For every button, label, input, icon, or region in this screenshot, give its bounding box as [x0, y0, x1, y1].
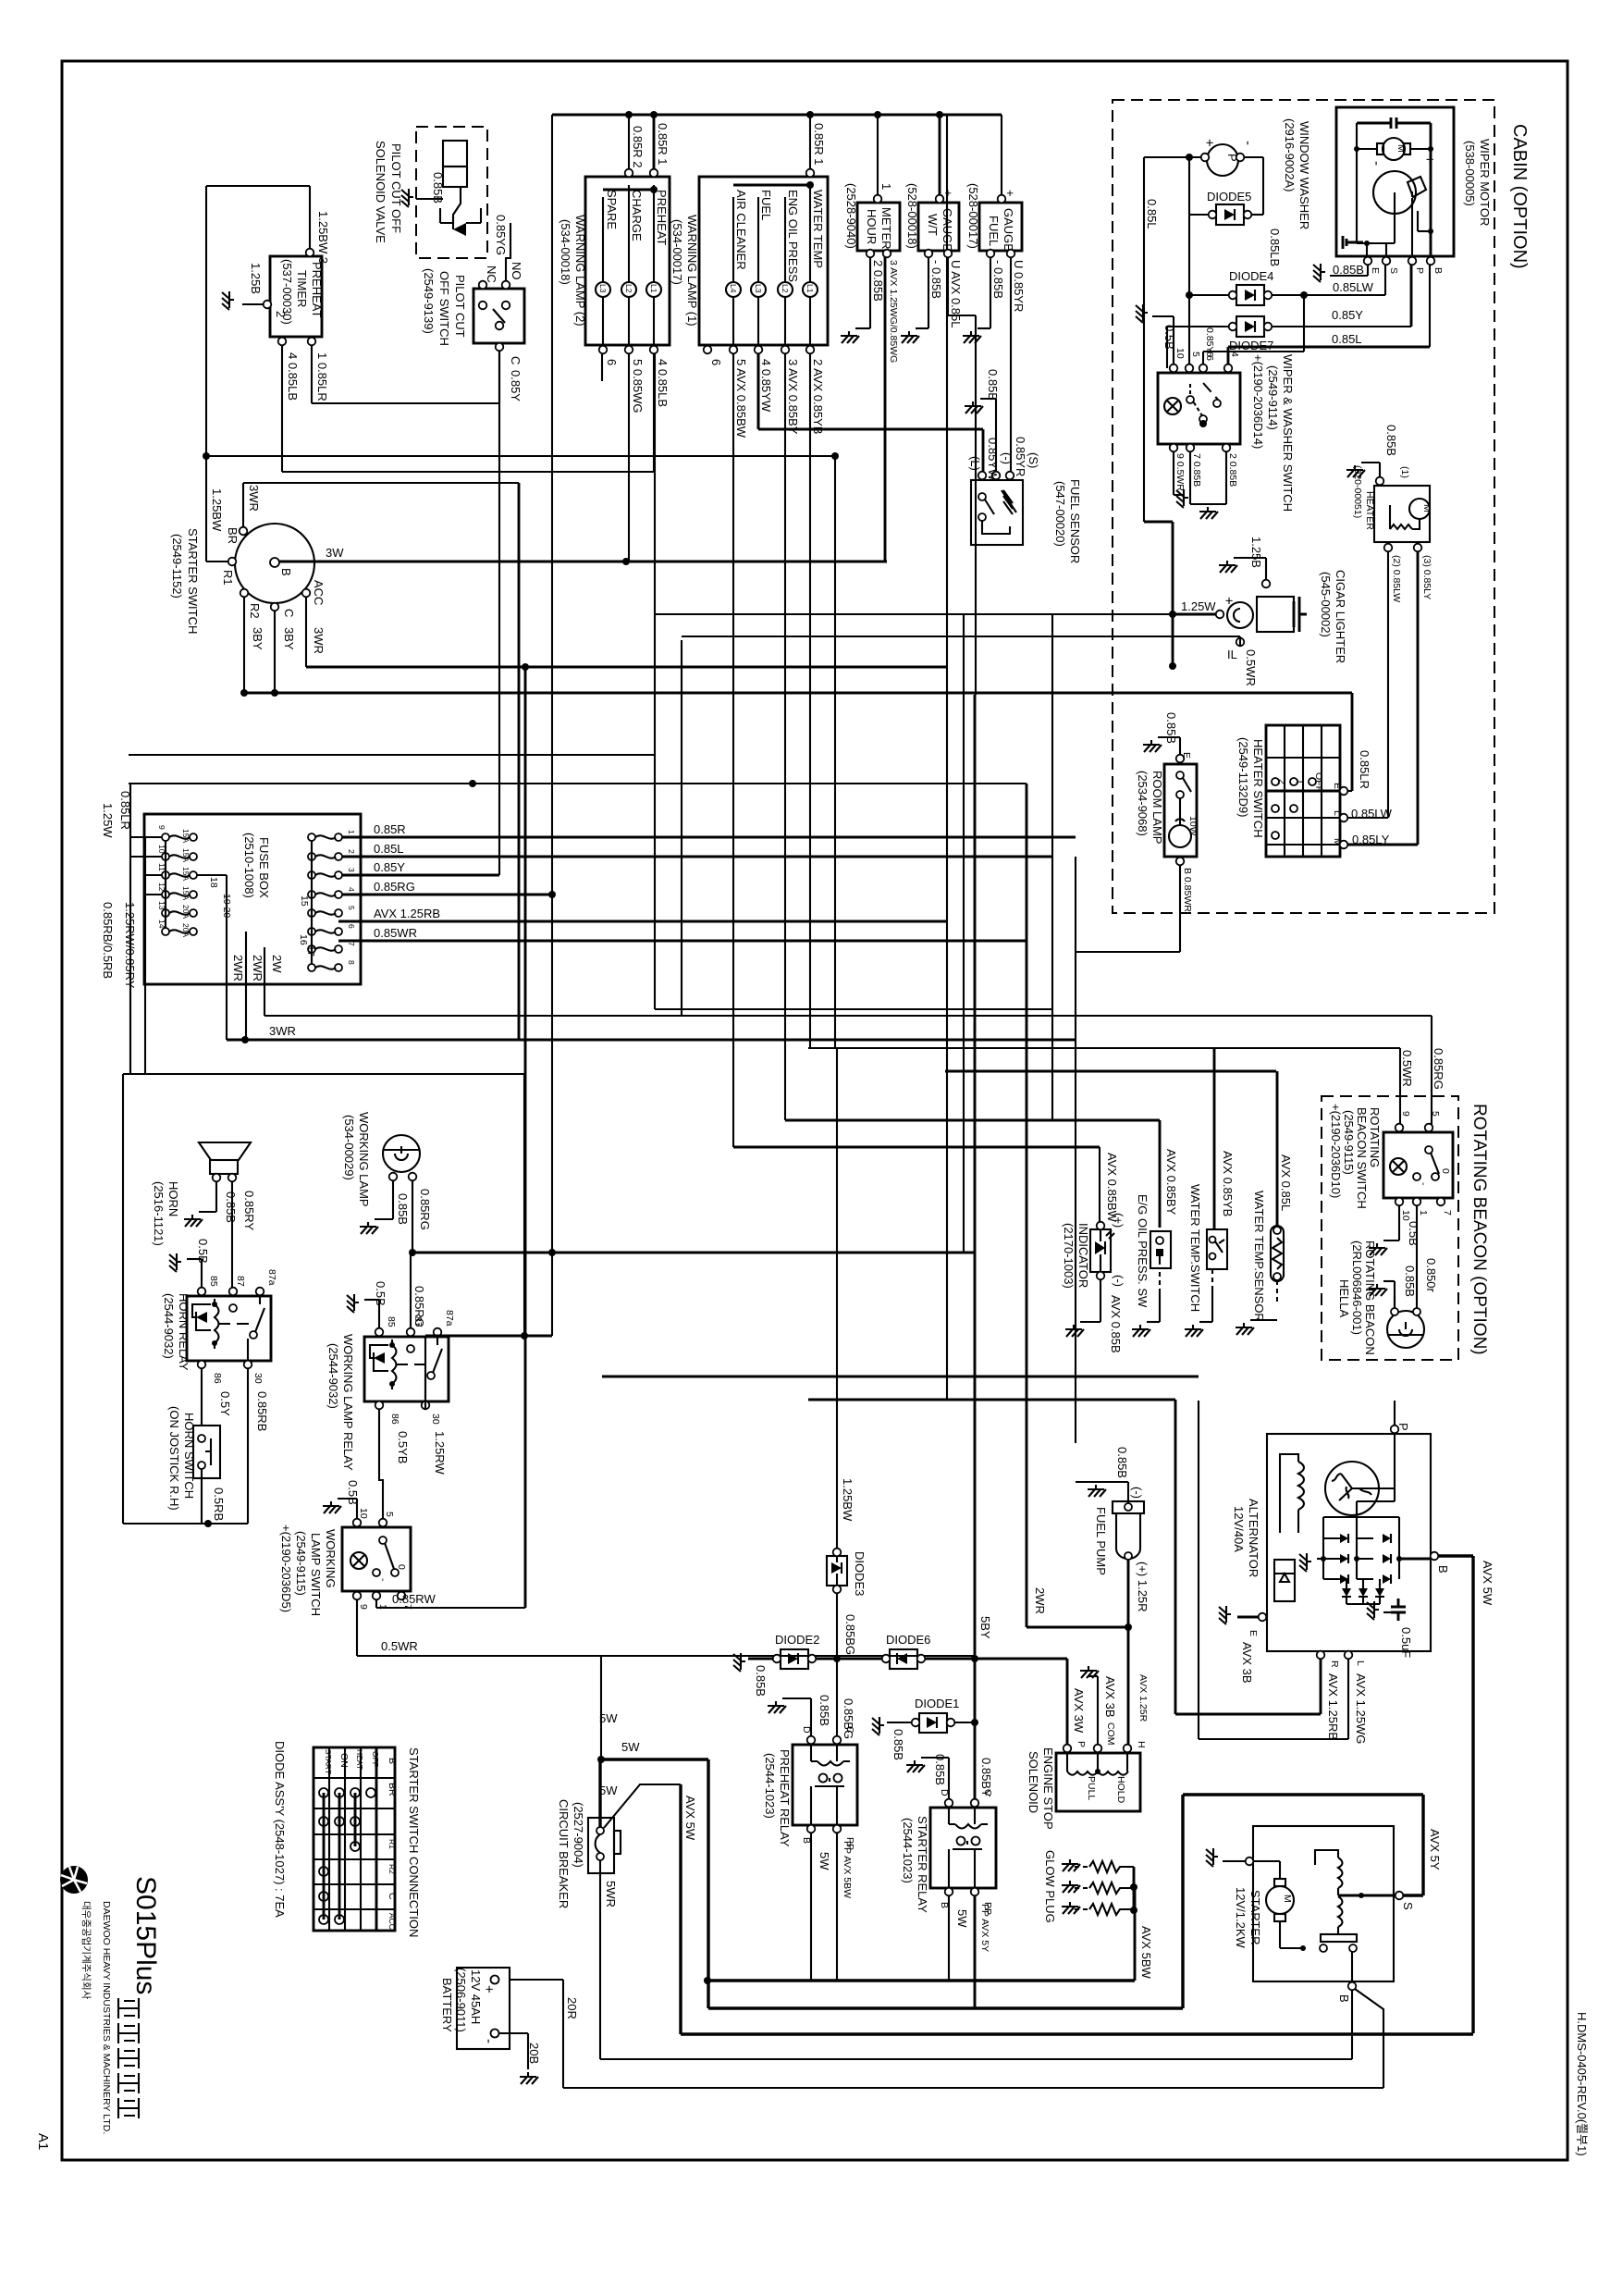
- diode6: [882, 1616, 992, 1669]
- svg-text:DIODE ASS'Y (2548-1027) : 7E: DIODE ASS'Y (2548-1027) : 7EA: [273, 1741, 287, 1918]
- wire: [129, 754, 655, 756]
- wire: [425, 1335, 552, 1338]
- svg-text:10: 10: [1400, 1210, 1411, 1221]
- svg-text:3WR: 3WR: [312, 627, 326, 654]
- wire: [282, 471, 655, 473]
- svg-text:ENG OIL PRESS: ENG OIL PRESS: [786, 190, 800, 282]
- svg-text:DIODE2: DIODE2: [775, 1633, 819, 1647]
- svg-text:(-): (-): [1130, 1487, 1144, 1499]
- horn (2516-1121): [152, 1142, 256, 1291]
- svg-text:R2: R2: [248, 603, 262, 619]
- wire: [1051, 614, 1053, 1120]
- svg-text:(2534-9068): (2534-9068): [1136, 771, 1150, 836]
- svg-text:HEAT: HEAT: [355, 1749, 364, 1770]
- svg-text:(528-00017): (528-00017): [966, 183, 980, 249]
- wire: [784, 353, 786, 1120]
- wire: [654, 353, 656, 1009]
- svg-text:0.85Y: 0.85Y: [1332, 308, 1363, 322]
- svg-text:CIGAR LIGHTER: CIGAR LIGHTER: [1334, 570, 1347, 663]
- wire: [1076, 951, 1180, 953]
- svg-text:HORN RELAY: HORN RELAY: [177, 1293, 191, 1371]
- svg-text:B: B: [939, 1902, 950, 1908]
- svg-text:(538-00005): (538-00005): [1463, 141, 1477, 206]
- svg-text:ALTERNATOR: ALTERNATOR: [1247, 1499, 1260, 1577]
- svg-text:2 AVX 0.85YB: 2 AVX 0.85YB: [811, 359, 825, 434]
- wire: [708, 2006, 1183, 2009]
- glow plug: [1043, 1850, 1153, 1980]
- diode5: [1189, 157, 1251, 368]
- svg-text:P: P: [1414, 267, 1425, 274]
- svg-text:WINDOW WASHER: WINDOW WASHER: [1297, 121, 1311, 229]
- wire: [552, 114, 1002, 117]
- svg-text:0.85B: 0.85B: [224, 1191, 238, 1223]
- wire: [1183, 1793, 1423, 1796]
- wire: [376, 1607, 525, 1609]
- svg-text:+(2190-2036D5): +(2190-2036D5): [279, 1524, 293, 1612]
- wire: [653, 353, 655, 472]
- wire: [1429, 265, 1431, 347]
- wire: [836, 1048, 838, 1552]
- svg-text:-: -: [377, 1578, 388, 1582]
- svg-text:P: P: [1396, 1423, 1410, 1431]
- wire 0.85RG from lamp bus: [410, 1253, 412, 1328]
- svg-text:AVX 0.85B: AVX 0.85B: [1109, 1295, 1123, 1353]
- svg-text:5W: 5W: [599, 1784, 618, 1797]
- wire: [1416, 1205, 1418, 1309]
- svg-text:NC: NC: [485, 265, 498, 283]
- svg-text:B: B: [1436, 1565, 1450, 1574]
- wire: [1174, 1400, 1177, 1714]
- heater (920-00051): [1346, 425, 1432, 845]
- svg-text:9: 9: [1400, 1111, 1411, 1117]
- wire: [1026, 784, 1028, 1627]
- wire: [206, 561, 227, 562]
- window washer (2916-9002A): [1144, 118, 1311, 522]
- svg-text:AVX 3B: AVX 3B: [1103, 1676, 1117, 1718]
- svg-text:2 0.85B: 2 0.85B: [1227, 453, 1238, 487]
- wire: [498, 2032, 528, 2034]
- starter switch connection table: [314, 1747, 421, 1937]
- wire: [412, 1180, 413, 1253]
- wire: [1303, 295, 1305, 352]
- svg-text:NO: NO: [510, 262, 523, 280]
- svg-text:AVX 0.85BY: AVX 0.85BY: [1164, 1149, 1178, 1216]
- svg-text:SOLENOID: SOLENOID: [1027, 1751, 1040, 1813]
- working lamp relay (2544-9032): [326, 1253, 524, 1519]
- svg-text:WATER TEMP.SWITCH: WATER TEMP.SWITCH: [1188, 1184, 1202, 1312]
- svg-text:L: L: [1355, 1660, 1366, 1666]
- svg-text:WIPER MOTOR: WIPER MOTOR: [1478, 139, 1492, 226]
- svg-text:LAMP SWITCH: LAMP SWITCH: [309, 1533, 323, 1616]
- wire: [600, 1656, 602, 1759]
- svg-text:HOUR: HOUR: [865, 209, 879, 244]
- wire: [732, 353, 734, 1147]
- svg-text:DAEWOO HEAVY INDUSTRIES & MACH: DAEWOO HEAVY INDUSTRIES & MACHINERY LTD.: [101, 1901, 112, 2134]
- svg-text:FUEL: FUEL: [987, 216, 1001, 246]
- svg-text:14: 14: [157, 920, 166, 929]
- svg-text:GAUGE: GAUGE: [941, 208, 954, 252]
- svg-text:2WR: 2WR: [231, 955, 245, 981]
- svg-text:0.85B: 0.85B: [1333, 263, 1364, 277]
- wire: [1347, 844, 1418, 846]
- svg-text:0.85LW: 0.85LW: [1333, 280, 1374, 294]
- svg-text:0.85WR: 0.85WR: [374, 926, 417, 940]
- svg-text:(2544-9032): (2544-9032): [162, 1293, 176, 1359]
- wire: [1421, 1795, 1424, 1895]
- svg-text:- 0.85B: - 0.85B: [929, 260, 943, 299]
- svg-text:0.85RW: 0.85RW: [392, 1592, 436, 1606]
- svg-text:M: M: [1421, 504, 1432, 512]
- svg-text:0.5B: 0.5B: [1162, 325, 1176, 350]
- svg-text:2WR: 2WR: [1033, 1587, 1047, 1614]
- wire: [1387, 551, 1389, 818]
- svg-text:0.85LB: 0.85LB: [1268, 228, 1282, 266]
- wire: [424, 1336, 426, 1409]
- wire: [379, 1409, 383, 1519]
- wire: [312, 402, 499, 404]
- svg-text:4: 4: [1229, 352, 1240, 357]
- svg-text:4 0.85LB: 4 0.85LB: [286, 352, 300, 401]
- svg-text:HOLD: HOLD: [1115, 1776, 1126, 1804]
- wire: [523, 1074, 525, 1336]
- svg-text:L3: L3: [754, 284, 763, 293]
- wire: [836, 1829, 838, 1981]
- svg-text:AVX 5W: AVX 5W: [683, 1796, 697, 1841]
- svg-text:AVX 1.25R: AVX 1.25R: [1137, 1674, 1149, 1722]
- svg-text:0: 0: [396, 1564, 407, 1570]
- fuse box (2510-1008): [101, 791, 440, 1040]
- svg-text:IL: IL: [1227, 648, 1237, 661]
- svg-text:ROTATING BEACON: ROTATING BEACON: [1363, 1241, 1377, 1355]
- wire: [925, 1658, 1067, 1660]
- wire: [758, 428, 983, 431]
- wire: [338, 940, 1027, 943]
- svg-text:15A: 15A: [181, 886, 191, 900]
- svg-text:AVX 0.85L: AVX 0.85L: [1279, 1154, 1293, 1211]
- wire: [1099, 1147, 1100, 1222]
- wire: [1272, 326, 1411, 327]
- wire: [600, 2058, 1352, 2060]
- wire: [242, 483, 244, 527]
- svg-text:+(2190-2036D10): +(2190-2036D10): [1329, 1104, 1343, 1198]
- svg-text:E/G OIL PRESS. SW: E/G OIL PRESS. SW: [1136, 1194, 1150, 1308]
- internal wires: [1356, 123, 1358, 243]
- svg-text:(545-00002): (545-00002): [1319, 572, 1333, 637]
- svg-text:R: R: [1329, 1660, 1340, 1668]
- svg-text:0.85R 1: 0.85R 1: [812, 123, 826, 166]
- svg-text:ROOM LAMP: ROOM LAMP: [1150, 771, 1164, 844]
- svg-text:R2: R2: [387, 1864, 397, 1874]
- svg-text:BR: BR: [226, 527, 240, 544]
- switch feed 0.5B: [1173, 316, 1174, 364]
- svg-text:WATER TEMP: WATER TEMP: [811, 190, 825, 268]
- svg-text:17: 17: [305, 945, 316, 957]
- wire: [1175, 1713, 1321, 1716]
- svg-text:0.85B: 0.85B: [396, 1193, 410, 1225]
- svg-text:(-): (-): [1000, 452, 1014, 464]
- wire: [231, 1181, 233, 1291]
- svg-text:METER: METER: [879, 207, 893, 250]
- svg-text:AVX 5BW: AVX 5BW: [1139, 1926, 1153, 1980]
- svg-text:7 0.85B: 7 0.85B: [1191, 453, 1202, 487]
- hour meter (2528-9040): [841, 115, 900, 363]
- wire: [757, 353, 760, 429]
- wiper motor (538-00005): [1336, 107, 1492, 274]
- svg-text:CIRCUIT BREAKER: CIRCUIT BREAKER: [557, 1799, 571, 1908]
- svg-text:START: START: [324, 1749, 333, 1774]
- svg-text:(2549-9114): (2549-9114): [1266, 365, 1280, 430]
- svg-text:1.25RW/0.85RY: 1.25RW/0.85RY: [123, 902, 137, 989]
- svg-text:BEACON SWITCH: BEACON SWITCH: [1355, 1107, 1369, 1209]
- wire: [1010, 253, 1012, 475]
- svg-text:BR: BR: [387, 1783, 398, 1796]
- svg-text:HEATER SWITCH: HEATER SWITCH: [1251, 739, 1265, 838]
- svg-text:ROTATING BEACON (OPTION): ROTATING BEACON (OPTION): [1469, 1104, 1489, 1355]
- wire: [129, 783, 1027, 784]
- water temp switch: [1185, 1151, 1235, 1337]
- wire: [1198, 1401, 1199, 1739]
- wire: [1199, 1738, 1348, 1740]
- svg-text:PP AVX 5BW: PP AVX 5BW: [842, 1841, 853, 1898]
- wire: [130, 836, 162, 838]
- svg-text:OFF: OFF: [371, 1751, 380, 1767]
- svg-text:5W: 5W: [955, 1909, 969, 1928]
- rotating beacon option dashed box: [1322, 1096, 1458, 1360]
- svg-text:3 AVX 0.85BY: 3 AVX 0.85BY: [786, 359, 800, 435]
- svg-text:15A: 15A: [181, 829, 191, 843]
- svg-text:1: 1: [347, 830, 356, 834]
- svg-text:1: 1: [879, 183, 893, 190]
- svg-text:+(2190-2036D14): +(2190-2036D14): [1251, 354, 1265, 449]
- svg-text:P: P: [1076, 1741, 1087, 1747]
- wire: [1144, 156, 1201, 158]
- battery (2506-9011): [440, 1968, 579, 2084]
- svg-text:AIR CLEANER: AIR CLEANER: [734, 190, 748, 270]
- wire: [707, 1759, 709, 2008]
- svg-text:5 AVX 0.85BW: 5 AVX 0.85BW: [734, 359, 748, 438]
- svg-text:STARTER RELAY: STARTER RELAY: [916, 1816, 929, 1913]
- wire: [306, 666, 947, 669]
- wire: [628, 353, 630, 562]
- svg-text:8: 8: [347, 960, 356, 965]
- svg-text:STARTER: STARTER: [1248, 1890, 1262, 1944]
- svg-text:+: +: [941, 190, 955, 197]
- svg-text:S: S: [1388, 267, 1399, 274]
- svg-text:ACC: ACC: [312, 580, 326, 605]
- wire: [375, 1596, 377, 1608]
- svg-text:1.25B: 1.25B: [249, 263, 263, 294]
- svg-text:0.5WR: 0.5WR: [381, 1639, 418, 1653]
- svg-text:SPARE: SPARE: [605, 190, 619, 229]
- svg-text:AVX 3W: AVX 3W: [1072, 1688, 1086, 1734]
- svg-text:(2544-1023): (2544-1023): [763, 1753, 777, 1819]
- svg-text:AVX 5W: AVX 5W: [1481, 1561, 1494, 1606]
- wire: [963, 614, 965, 1253]
- wire: [1355, 1989, 1383, 2088]
- wire: [1272, 294, 1385, 296]
- svg-text:87a: 87a: [444, 1310, 455, 1327]
- svg-text:1.25W: 1.25W: [101, 803, 115, 838]
- svg-text:0.85YR: 0.85YR: [1014, 437, 1027, 476]
- svg-text:9 0.5WR: 9 0.5WR: [1174, 453, 1186, 491]
- svg-text:10: 10: [157, 845, 166, 854]
- svg-text:85: 85: [208, 1276, 219, 1287]
- svg-text:S: S: [1401, 1902, 1415, 1910]
- svg-text:B: B: [1337, 1994, 1351, 2003]
- wire: [510, 1979, 563, 1981]
- svg-text:HORN: HORN: [166, 1181, 180, 1216]
- svg-text:ON: ON: [338, 1753, 350, 1768]
- svg-text:+: +: [1421, 155, 1437, 164]
- wire: [948, 1892, 950, 1981]
- svg-text:GLOW PLUG: GLOW PLUG: [1043, 1850, 1057, 1923]
- regulator: [1274, 1560, 1295, 1601]
- wire: [1347, 790, 1352, 792]
- wire: [201, 1368, 203, 1426]
- svg-text:0: 0: [1440, 1168, 1451, 1174]
- svg-text:DIODE7: DIODE7: [1229, 339, 1273, 352]
- indicator (2170-1003): [1062, 1147, 1125, 1353]
- svg-text:(S): (S): [1027, 452, 1040, 468]
- svg-text:B: B: [279, 568, 293, 576]
- svg-text:AVX 1.25RB: AVX 1.25RB: [374, 907, 440, 920]
- svg-text:5W: 5W: [599, 1711, 618, 1725]
- svg-text:0.5WR: 0.5WR: [1244, 649, 1258, 686]
- svg-text:0.85LR: 0.85LR: [1358, 750, 1371, 789]
- svg-text:(2510-1008): (2510-1008): [242, 833, 256, 898]
- svg-text:C: C: [387, 1893, 398, 1900]
- svg-text:+: +: [481, 1985, 497, 1994]
- svg-text:(L): (L): [968, 456, 982, 471]
- svg-text:86: 86: [389, 1413, 400, 1425]
- svg-text:0.5B: 0.5B: [374, 1281, 387, 1306]
- svg-text:2W: 2W: [270, 955, 284, 973]
- svg-text:HORN SWITCH: HORN SWITCH: [182, 1413, 196, 1499]
- wire: [1399, 1048, 1401, 1128]
- water temp sensor: [1236, 1071, 1293, 1335]
- svg-text:E: E: [1248, 1630, 1259, 1636]
- svg-text:0.5Y: 0.5Y: [218, 1391, 232, 1416]
- svg-text:0.85BG: 0.85BG: [842, 1698, 855, 1739]
- svg-text:3W: 3W: [326, 546, 344, 560]
- svg-text:0.85RG: 0.85RG: [1432, 1048, 1445, 1090]
- svg-text:U AVX 0.85L: U AVX 0.85L: [949, 260, 963, 327]
- daewoo logo: [60, 1866, 112, 2134]
- wire: [201, 1469, 203, 1524]
- svg-text:5: 5: [347, 906, 356, 910]
- svg-text:WATER TEMP.SENSOR: WATER TEMP.SENSOR: [1252, 1191, 1266, 1322]
- svg-text:30: 30: [252, 1373, 264, 1384]
- svg-text:15: 15: [299, 895, 310, 907]
- svg-text:(-): (-): [1112, 1275, 1125, 1287]
- svg-text:3BY: 3BY: [282, 627, 296, 650]
- wire: [1027, 1626, 1128, 1629]
- wire P stem: [1394, 1401, 1396, 1426]
- svg-text:-: -: [1418, 1182, 1429, 1186]
- wire: [1173, 613, 1216, 616]
- wire: [1351, 1990, 1353, 2059]
- wire: [338, 920, 947, 923]
- svg-text:0.85B: 0.85B: [1384, 425, 1398, 456]
- svg-text:L1: L1: [649, 284, 658, 293]
- inner leads: [1372, 1487, 1395, 1489]
- svg-text:C: C: [282, 609, 296, 617]
- wire: [1173, 451, 1174, 495]
- wire: [1144, 521, 1173, 524]
- wire: [884, 253, 887, 562]
- wire: [1244, 156, 1263, 158]
- svg-text:WORKING LAMP RELAY: WORKING LAMP RELAY: [341, 1334, 355, 1471]
- svg-text:0.85B: 0.85B: [1164, 712, 1178, 744]
- svg-text:1.25B: 1.25B: [1249, 537, 1263, 568]
- svg-text:CHARGE: CHARGE: [630, 190, 644, 241]
- svg-text:+: +: [1201, 139, 1217, 147]
- wire: [206, 185, 310, 187]
- wire: [1134, 1887, 1137, 1981]
- horn relay (2544-9032): [162, 1239, 277, 1524]
- svg-text:7: 7: [347, 942, 356, 946]
- svg-text:W/T: W/T: [926, 214, 940, 236]
- svg-text:-: -: [1369, 161, 1384, 166]
- fuel pump: [1033, 1447, 1150, 1614]
- svg-text:9: 9: [157, 825, 166, 830]
- rectifier diodes: [1323, 1537, 1373, 1539]
- e/g oil press switch: [1132, 1120, 1178, 1337]
- svg-text:(+) 1.25R: (+) 1.25R: [1136, 1562, 1150, 1612]
- svg-text:DIODE1: DIODE1: [915, 1697, 959, 1710]
- svg-text:(2) 0.85LW: (2) 0.85LW: [1391, 555, 1402, 602]
- wire: [602, 1376, 1199, 1378]
- wire: [145, 874, 162, 876]
- svg-text:3 AVX 1.25WG/0.85WG: 3 AVX 1.25WG/0.85WG: [888, 260, 899, 363]
- svg-text:4 0.85YW: 4 0.85YW: [759, 359, 773, 413]
- wire: [1179, 865, 1181, 952]
- svg-text:15A: 15A: [181, 848, 191, 862]
- pilot cut off switch (2549-9139): [422, 223, 524, 403]
- svg-text:20B: 20B: [527, 2043, 541, 2064]
- svg-text:H: H: [1136, 1741, 1147, 1748]
- svg-text:16: 16: [298, 934, 309, 945]
- wire: [356, 1596, 358, 1656]
- svg-text:(534-00029): (534-00029): [342, 1115, 356, 1180]
- svg-text:DIODE5: DIODE5: [1207, 190, 1251, 204]
- wire: [601, 1758, 708, 1760]
- svg-text:0.5YB: 0.5YB: [396, 1431, 410, 1463]
- wire: [681, 2032, 1473, 2035]
- svg-text:(528-00018): (528-00018): [905, 183, 919, 249]
- wire: [655, 1008, 1052, 1010]
- svg-text:AVX 3B: AVX 3B: [1240, 1642, 1254, 1684]
- svg-text:PREHEAT: PREHEAT: [655, 190, 669, 245]
- svg-text:-: -: [481, 2039, 497, 2043]
- svg-text:C: C: [509, 356, 523, 364]
- svg-text:STARTER SWITCH: STARTER SWITCH: [186, 528, 200, 634]
- svg-text:(2549-9115): (2549-9115): [1342, 1110, 1356, 1175]
- wire: [1213, 1048, 1216, 1229]
- pilot cut off solenoid valve: [374, 127, 508, 258]
- svg-text:0.85Y: 0.85Y: [374, 860, 405, 874]
- engine stop solenoid: [1027, 1659, 1149, 1830]
- svg-text:+: +: [1221, 597, 1236, 605]
- svg-text:0.5RB: 0.5RB: [212, 1487, 226, 1521]
- cabin option dashed box: [1113, 100, 1494, 913]
- wire: [1076, 1481, 1102, 1483]
- R L terminals: [1317, 1651, 1325, 1660]
- wire: [1167, 326, 1229, 327]
- svg-text:PREHEAT: PREHEAT: [310, 262, 324, 317]
- svg-text:0.85RY: 0.85RY: [242, 1191, 256, 1230]
- svg-text:5 0.85WG: 5 0.85WG: [631, 359, 645, 414]
